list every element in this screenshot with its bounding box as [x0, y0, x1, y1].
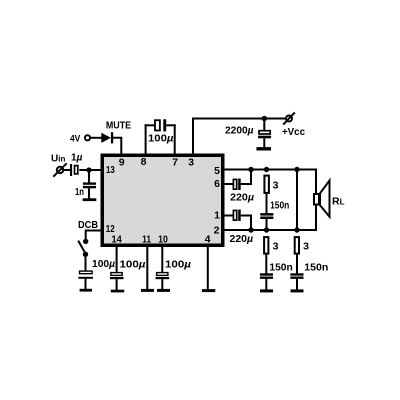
wire C8 up to pin5 line — [241, 170, 251, 185]
svg-text:13: 13 — [106, 164, 115, 176]
node pin5-C8 junction — [248, 167, 253, 172]
svg-text:10: 10 — [158, 233, 168, 245]
label Uin — [51, 154, 65, 165]
wire top bracket left — [145, 124, 155, 126]
wire R3 to C12 — [296, 255, 298, 274]
label 220u pin6 — [230, 192, 254, 204]
wire junction down to C4 — [88, 170, 90, 183]
capacitor C7 100u pin10 — [156, 273, 170, 280]
svg-text:1µ: 1µ — [71, 152, 83, 163]
svg-text:4V: 4V — [70, 133, 81, 144]
node pin5-wire junction — [294, 167, 299, 172]
svg-text:6: 6 — [214, 178, 220, 190]
wire C5 to ground — [85, 279, 87, 290]
wire pin 11 to ground — [146, 245, 148, 290]
svg-text:1n: 1n — [75, 187, 84, 198]
capacitor C11 150n — [260, 273, 273, 279]
op-amp IC U1 body — [102, 155, 223, 245]
wire top bracket right — [166, 124, 176, 126]
capacitor C6 100u pin14 — [110, 273, 124, 280]
wire pin 14 down — [116, 245, 118, 272]
svg-text:3: 3 — [273, 241, 279, 253]
switch S1 contact top — [83, 239, 88, 244]
label 1u — [71, 152, 83, 163]
node Vcc junction — [262, 116, 267, 121]
capacitor C9 220u pin1 — [233, 210, 240, 222]
svg-text:7: 7 — [172, 156, 178, 168]
wire R2 to C11 — [265, 255, 267, 274]
label 4V — [70, 133, 81, 144]
ground under C4 — [83, 198, 97, 201]
label 100u pin14 — [120, 259, 146, 271]
pin 9 label — [119, 156, 125, 168]
svg-text:5: 5 — [214, 165, 220, 177]
svg-text:1: 1 — [214, 210, 220, 222]
pin 6 label — [214, 178, 220, 190]
pin 5 label — [214, 165, 220, 177]
capacitor C12 150n — [290, 273, 303, 279]
node pin2-R1 junction — [264, 227, 269, 232]
svg-text:4: 4 — [205, 233, 211, 245]
wire pin 10 down — [161, 245, 163, 272]
label 220u pin1 — [230, 233, 254, 245]
ground under C7 — [157, 289, 170, 292]
ground under C11 — [260, 289, 273, 292]
ground under C12 — [291, 289, 304, 292]
svg-text:2200µ: 2200µ — [225, 125, 254, 137]
label 100u DCB — [92, 258, 115, 270]
svg-text:100µ: 100µ — [120, 259, 146, 271]
node input junction — [86, 167, 91, 172]
svg-text:3: 3 — [303, 241, 309, 253]
wire 4V to diode — [91, 137, 102, 139]
wire pin 6 to C8 — [223, 183, 233, 185]
terminal 4V — [85, 135, 90, 140]
wire C11 to ground — [265, 279, 267, 291]
capacitor C3 1u input — [70, 164, 78, 176]
ground under C5 — [80, 289, 92, 292]
pin 10 label — [158, 233, 168, 245]
wire pin 5 output line — [223, 169, 317, 171]
label C10 150n — [270, 199, 289, 211]
pin 11 label — [142, 233, 151, 245]
capacitor C2 2200u — [258, 131, 271, 139]
node pin5-R1 junction — [264, 167, 269, 172]
wire C12 to ground — [296, 279, 298, 291]
svg-text:+Vcc: +Vcc — [282, 126, 305, 138]
resistor R3 3ohm — [295, 237, 299, 254]
node pin2-C9 junction — [248, 227, 253, 232]
wire pin 4 to ground — [207, 245, 209, 290]
svg-text:150n: 150n — [304, 262, 328, 274]
resistor R1 3ohm — [264, 176, 269, 193]
wire pin 12 to switch — [86, 231, 102, 240]
wire pin 2 output line — [223, 229, 317, 231]
svg-text:3: 3 — [273, 180, 279, 192]
wire R1 to C10 — [266, 194, 268, 214]
capacitor C4 1n — [83, 182, 96, 188]
label R3 3 — [303, 241, 309, 253]
wire switch to C5 — [85, 254, 87, 271]
label MUTE — [106, 120, 131, 132]
terminal +Vcc — [283, 112, 295, 124]
node pin2-wire junction — [294, 227, 299, 232]
svg-text:3: 3 — [188, 156, 194, 168]
capacitor C1 100u (pins 8-7) — [155, 119, 166, 131]
label DCB — [78, 219, 98, 231]
label C11 150n — [269, 262, 292, 274]
label 100u top — [148, 133, 174, 145]
svg-text:220µ: 220µ — [230, 192, 254, 204]
svg-text:100µ: 100µ — [148, 133, 174, 145]
label 100u pin10 — [165, 259, 191, 271]
switch S1 lever — [78, 241, 85, 254]
wire output bridge x297 — [296, 170, 298, 231]
svg-text:MUTE: MUTE — [106, 120, 131, 132]
wire C10 to pin2 line — [266, 219, 268, 230]
pin 13 label — [106, 164, 115, 176]
label RL — [332, 196, 345, 208]
pin 2 label — [214, 225, 220, 237]
svg-text:150n: 150n — [270, 199, 289, 211]
label R2 3 — [273, 241, 279, 253]
capacitor C5 100u DCB — [78, 271, 93, 279]
svg-text:150n: 150n — [269, 262, 292, 274]
svg-text:RL: RL — [332, 196, 345, 208]
pin 8 label — [141, 156, 147, 168]
label C12 150n — [304, 262, 328, 274]
label +Vcc — [282, 126, 305, 138]
wire pin 8 up — [145, 124, 147, 155]
capacitor C10 150n — [260, 213, 273, 219]
wire speaker branch — [315, 170, 317, 231]
pin 3 label — [188, 156, 194, 168]
wire pin 3 to +Vcc rail — [193, 119, 286, 156]
wire C9 down to pin2 line — [241, 216, 251, 231]
ground pin 11 — [141, 289, 154, 292]
svg-text:100µ: 100µ — [165, 259, 191, 271]
pin 4 label — [205, 233, 211, 245]
wire pin 7 up — [174, 124, 176, 155]
svg-text:Uin: Uin — [51, 154, 65, 165]
diode D1 mute — [101, 132, 113, 143]
capacitor C8 220u pin6 — [233, 179, 240, 191]
wire C7 to ground — [161, 279, 163, 290]
ground under C2 — [256, 147, 271, 150]
pin 7 label — [172, 156, 178, 168]
pin 14 label — [111, 233, 121, 245]
wire Uin to C3 — [63, 169, 71, 171]
wire C2 to ground — [263, 138, 265, 148]
wire C4 to ground — [88, 188, 90, 199]
pin 1 label — [214, 210, 220, 222]
label R1 3 — [273, 180, 279, 192]
pin 12 label — [106, 223, 115, 235]
svg-text:8: 8 — [141, 156, 147, 168]
resistor R2 3ohm — [264, 237, 268, 254]
wire diode to pin 9 — [113, 138, 121, 155]
svg-text:DCB: DCB — [78, 219, 98, 231]
svg-text:11: 11 — [142, 233, 151, 245]
svg-text:14: 14 — [111, 233, 121, 245]
wire pin 1 to C9 — [223, 215, 233, 217]
wire C6 to ground — [116, 279, 118, 290]
wire junction to C2 — [263, 119, 265, 131]
wire C3 to pin 13 — [79, 169, 102, 171]
svg-text:2: 2 — [214, 225, 220, 237]
terminal Uin — [53, 163, 66, 176]
speaker RL — [314, 181, 330, 217]
svg-text:220µ: 220µ — [230, 233, 254, 245]
svg-text:9: 9 — [119, 156, 125, 168]
svg-text:100µ: 100µ — [92, 258, 115, 270]
ground pin 4 — [202, 289, 215, 292]
ground under C6 — [111, 290, 124, 293]
label 1n — [75, 187, 84, 198]
label 2200u — [225, 125, 254, 137]
switch S1 contact bottom — [83, 252, 88, 257]
